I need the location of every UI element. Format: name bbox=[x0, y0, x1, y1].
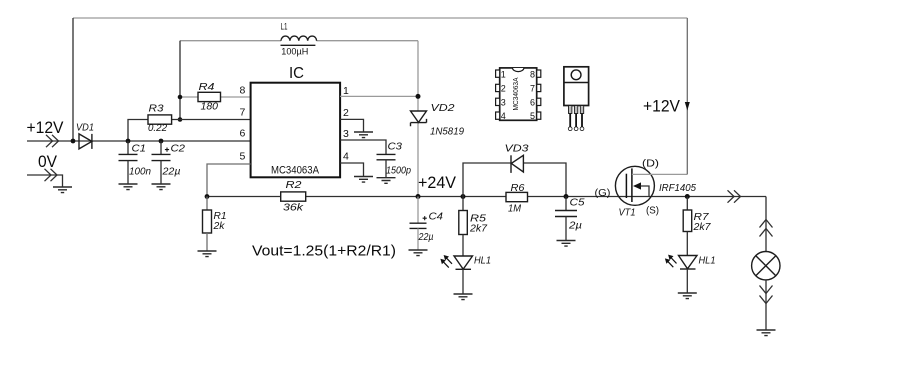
svg-text:1N5819: 1N5819 bbox=[430, 127, 464, 138]
wire lamp branch corner down bbox=[765, 197, 767, 252]
diode VD2 1N5819 (schottky) bbox=[411, 103, 465, 138]
svg-text:2µ: 2µ bbox=[568, 221, 582, 232]
capacitor C3 bbox=[377, 141, 412, 177]
wire pin 5 down to feedback node bbox=[207, 164, 251, 197]
svg-text:C2: C2 bbox=[171, 144, 186, 155]
svg-text:1: 1 bbox=[343, 85, 349, 97]
svg-text:R2: R2 bbox=[286, 180, 303, 191]
node dot at (161,141) bbox=[159, 139, 164, 144]
capacitor C2 (polarized) bbox=[152, 141, 186, 184]
svg-text:7: 7 bbox=[530, 84, 535, 94]
node dot at (207,196.5) bbox=[205, 194, 210, 199]
wire pin 4 to ground bbox=[340, 163, 363, 177]
svg-text:VD1: VD1 bbox=[76, 123, 94, 134]
node dot at (73,141) bbox=[71, 139, 76, 144]
svg-text:+12V: +12V bbox=[643, 97, 681, 116]
svg-text:Vout=1.25(1+R2/R1): Vout=1.25(1+R2/R1) bbox=[252, 243, 396, 260]
svg-text:1500p: 1500p bbox=[386, 166, 411, 177]
svg-text:180: 180 bbox=[201, 101, 219, 112]
node dot at (180,119.5) bbox=[178, 117, 183, 122]
svg-text:R4: R4 bbox=[199, 82, 216, 93]
svg-text:R6: R6 bbox=[511, 183, 525, 194]
svg-text:0.22: 0.22 bbox=[148, 123, 167, 134]
connector arrows on output line bbox=[728, 190, 741, 202]
ground 0V bbox=[53, 187, 72, 193]
svg-text:VT1: VT1 bbox=[619, 208, 636, 219]
wire left vertical from top rail to +12V input line bbox=[72, 18, 74, 141]
resistor R5 bbox=[459, 197, 488, 257]
svg-text:L1: L1 bbox=[281, 21, 288, 31]
svg-text:C1: C1 bbox=[132, 144, 147, 155]
svg-text:7: 7 bbox=[240, 107, 246, 119]
inductor L1 bbox=[281, 21, 317, 57]
svg-text:5: 5 bbox=[530, 111, 535, 121]
svg-text:+12V: +12V bbox=[27, 118, 65, 137]
LED HL1 left bbox=[440, 255, 491, 294]
node dot at (566,196.5) bbox=[564, 194, 569, 199]
ground lamp bbox=[757, 330, 776, 336]
wire 0V input line bbox=[27, 175, 63, 187]
resistor R7 bbox=[683, 197, 711, 256]
svg-text:4: 4 bbox=[343, 151, 349, 163]
ground pin 2 bbox=[354, 132, 373, 138]
svg-text:VD3: VD3 bbox=[505, 143, 530, 154]
ground HL1 left bbox=[454, 294, 473, 300]
wire below lamp bbox=[765, 280, 767, 330]
node dot at (463,196.5) bbox=[461, 194, 466, 199]
wire pin 2 to ground bbox=[340, 119, 363, 132]
wire vertical x=180 from L1 down to R3 line bbox=[179, 41, 181, 120]
MOSFET VT1 IRF1405 bbox=[615, 157, 696, 218]
svg-text:2k7: 2k7 bbox=[692, 222, 711, 233]
svg-text:HL1: HL1 bbox=[699, 255, 716, 266]
diode VD3 bbox=[505, 143, 530, 173]
svg-text:+24V: +24V bbox=[418, 173, 457, 192]
IC box U1 MC34063A bbox=[251, 65, 341, 177]
wire vertical x=418 from L1 down through VD2 to +24V node bbox=[417, 41, 419, 197]
wire top rail horizontal bbox=[73, 17, 687, 19]
wire VD3 bypass branch bbox=[463, 163, 566, 197]
svg-text:C5: C5 bbox=[570, 198, 585, 209]
svg-text:HL1: HL1 bbox=[474, 255, 491, 266]
wire L1 run right segment bbox=[317, 40, 419, 42]
node dot at (180,97) bbox=[178, 95, 183, 100]
TO-220 package drawing bbox=[564, 67, 589, 131]
resistor R3 bbox=[148, 103, 172, 134]
capacitor C1 bbox=[119, 141, 152, 184]
node dot at (418,196.5) bbox=[416, 194, 421, 199]
svg-text:3: 3 bbox=[343, 128, 349, 140]
svg-text:22µ: 22µ bbox=[161, 166, 180, 177]
resistor R4 bbox=[198, 82, 221, 112]
svg-text:(D): (D) bbox=[642, 157, 659, 169]
LED HL1 right bbox=[665, 255, 716, 293]
wire pin8/R4 run bbox=[180, 96, 251, 98]
wire drain to top rail bbox=[632, 173, 687, 175]
svg-text:2k7: 2k7 bbox=[469, 224, 488, 235]
node dot at (418,96.4) bbox=[416, 94, 421, 99]
ground HL1 right bbox=[678, 293, 697, 299]
svg-text:6: 6 bbox=[530, 97, 535, 107]
node dot at (687.3,196.5) bbox=[685, 194, 690, 199]
svg-text:0V: 0V bbox=[38, 152, 58, 171]
svg-text:3: 3 bbox=[501, 97, 506, 107]
svg-text:(G): (G) bbox=[595, 187, 611, 199]
svg-text:R3: R3 bbox=[149, 103, 164, 114]
svg-text:2k: 2k bbox=[212, 221, 225, 232]
svg-text:(S): (S) bbox=[646, 204, 659, 216]
connector arrows +12V input bbox=[46, 135, 59, 147]
svg-text:4: 4 bbox=[501, 111, 506, 121]
svg-text:C4: C4 bbox=[429, 212, 444, 223]
main output line bbox=[207, 196, 766, 198]
ground C1 bbox=[119, 184, 138, 190]
svg-text:8: 8 bbox=[240, 85, 246, 97]
arrow down on +12V wire bbox=[685, 102, 690, 111]
wire L1 run left segment bbox=[180, 40, 281, 42]
node dot at (128,141) bbox=[126, 139, 131, 144]
resistor R1 bbox=[203, 197, 227, 252]
svg-text:IC: IC bbox=[289, 65, 304, 82]
svg-text:MC34063A: MC34063A bbox=[271, 165, 320, 177]
resistor R6 bbox=[506, 183, 528, 215]
ground R1 bbox=[198, 251, 217, 257]
ground C5 bbox=[557, 241, 576, 247]
svg-text:1: 1 bbox=[501, 69, 506, 79]
resistor R2 bbox=[281, 180, 306, 214]
ground C4 bbox=[409, 250, 428, 256]
ground pin 4 bbox=[354, 177, 373, 183]
wire pin 1 to VD2 node bbox=[340, 95, 418, 97]
connector chevrons down on lamp branch bbox=[760, 286, 773, 304]
wire +12V input line bbox=[27, 140, 251, 142]
lamp EL1 bbox=[752, 252, 780, 280]
connector arrows 0V input bbox=[45, 169, 58, 181]
svg-text:1M: 1M bbox=[508, 204, 522, 215]
DIP-8 package drawing bbox=[496, 68, 541, 121]
ground C2 bbox=[152, 184, 171, 190]
svg-text:22µ: 22µ bbox=[418, 232, 434, 243]
wire R3 branch: up from C1 node and to pin 7 bbox=[128, 120, 251, 142]
svg-text:C3: C3 bbox=[388, 141, 403, 152]
wire right vertical x=687.3 bbox=[686, 18, 688, 174]
svg-text:IRF1405: IRF1405 bbox=[659, 183, 696, 194]
svg-text:5: 5 bbox=[240, 151, 246, 163]
svg-text:VD2: VD2 bbox=[431, 103, 456, 114]
wire pin 3 to C3 bbox=[340, 140, 386, 154]
svg-text:36k: 36k bbox=[283, 203, 304, 214]
svg-text:MC34063A: MC34063A bbox=[511, 78, 520, 111]
diode VD1 bbox=[76, 123, 94, 149]
ground C3 bbox=[377, 178, 396, 184]
svg-text:2: 2 bbox=[343, 107, 349, 119]
svg-text:8: 8 bbox=[530, 69, 535, 79]
svg-text:6: 6 bbox=[240, 128, 246, 140]
svg-text:2: 2 bbox=[501, 84, 506, 94]
connector chevrons up on lamp branch bbox=[760, 220, 773, 237]
capacitor C5 bbox=[555, 197, 585, 241]
svg-text:100n: 100n bbox=[129, 166, 151, 177]
svg-text:100µH: 100µH bbox=[281, 47, 308, 58]
capacitor C4 (polarized) bbox=[410, 197, 444, 251]
